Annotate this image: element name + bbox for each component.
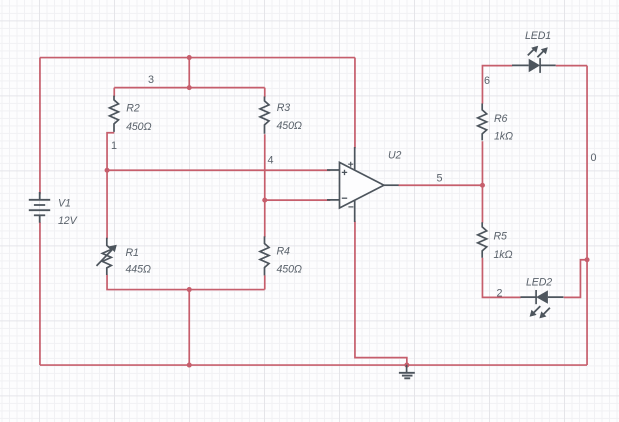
svg-text:U2: U2 <box>388 150 402 162</box>
junction: node 1 <box>105 168 110 173</box>
resistor R3 <box>260 97 269 134</box>
junction: net 5 output <box>480 183 485 188</box>
wire: R6 top up to LED1 row corner <box>482 66 512 104</box>
LED1 <box>512 46 556 73</box>
svg-text:3: 3 <box>148 74 154 86</box>
svg-text:R2: R2 <box>126 103 140 115</box>
LED2 <box>521 290 564 318</box>
wire: V1 minus lead down to bottom rail <box>39 222 41 365</box>
wire: bridge bottom stub down to ground rail <box>188 290 190 366</box>
svg-text:1kΩ: 1kΩ <box>494 130 513 142</box>
svg-text:1kΩ: 1kΩ <box>494 249 513 261</box>
ground symbol <box>399 365 415 379</box>
wire: node 1 down to R1 <box>106 170 108 239</box>
op-amp minus input mark <box>342 197 347 199</box>
op-amp output lead <box>384 184 399 186</box>
LED1 cathode bar <box>539 58 541 73</box>
wire: R2 top lead <box>113 88 115 97</box>
svg-text:5: 5 <box>437 173 443 185</box>
svg-text:450Ω: 450Ω <box>277 264 302 276</box>
LED2 triangle <box>536 290 548 303</box>
junction: bottom rail / bridge stub <box>187 363 192 368</box>
wire: top rail from V1 to op-amp V+ pin <box>40 57 355 59</box>
resistor R5 <box>478 222 487 257</box>
wire: R5 bottom to LED2 row <box>482 258 520 298</box>
junction: node 4 tap <box>262 198 267 203</box>
op-amp V- pin mark <box>348 206 353 208</box>
wire: right rail net 0 down to bottom rail <box>586 66 588 365</box>
wire: op-amp V+ from top rail <box>354 58 356 149</box>
wire: net 4 vertical R3 to R4 <box>264 134 266 237</box>
wire: op-amp output net 5 <box>398 184 482 186</box>
LED1 leads <box>512 64 556 66</box>
svg-text:445Ω: 445Ω <box>126 264 151 276</box>
LED1 triangle <box>529 59 540 73</box>
op-amp U2 <box>327 147 399 222</box>
svg-text:6: 6 <box>484 75 490 87</box>
wire: bridge top horizontal R2 to R3 <box>114 87 265 89</box>
svg-text:450Ω: 450Ω <box>277 120 302 132</box>
wire: R1 bottom to bridge bottom <box>107 275 265 290</box>
resistor R4 <box>260 236 269 275</box>
op-amp power pins <box>354 147 356 222</box>
junction: top rail / net 3 <box>187 55 192 60</box>
wire: R3 top lead <box>264 88 266 98</box>
svg-text:R3: R3 <box>277 102 291 114</box>
op-amp plus input mark <box>342 170 347 175</box>
wire: net 3 stub down to bridge top <box>188 58 190 88</box>
battery V1 <box>29 192 50 223</box>
wire: op-amp V- down and over to ground junction <box>355 221 407 365</box>
svg-text:R5: R5 <box>494 231 508 243</box>
junction: bridge bottom <box>187 287 192 292</box>
svg-text:LED1: LED1 <box>525 30 551 42</box>
svg-text:V1: V1 <box>58 198 71 210</box>
svg-text:12V: 12V <box>58 215 78 227</box>
svg-text:2: 2 <box>497 288 503 300</box>
wire: node 1 to op-amp plus input <box>107 169 330 171</box>
wire: V1 plus lead up to top-left corner <box>39 58 41 195</box>
wire: net 5 junction down to R5 <box>481 185 483 223</box>
wire: node 4 tap to op-amp minus input <box>265 199 331 201</box>
junction: ground tap on bottom rail <box>404 363 409 368</box>
svg-text:4: 4 <box>268 155 274 167</box>
LED2 emission arrow b <box>544 308 550 314</box>
LED2 emission arrow a <box>534 306 540 312</box>
svg-text:R4: R4 <box>277 246 291 258</box>
wire: R4 bottom lead to bridge bottom <box>264 275 266 289</box>
resistor R2 <box>110 96 119 132</box>
arrowhead of rheostat R1 <box>109 245 117 253</box>
op-amp triangle body <box>340 162 384 208</box>
rheostat R1 <box>97 238 113 275</box>
wire: net 5 junction up to R6 <box>481 141 483 185</box>
svg-text:0: 0 <box>591 152 597 164</box>
svg-text:LED2: LED2 <box>526 277 552 289</box>
svg-text:450Ω: 450Ω <box>126 121 151 133</box>
junction: bridge top / net 3 <box>187 85 192 90</box>
svg-text:1: 1 <box>111 140 117 152</box>
op-amp V+ pin mark <box>348 162 353 167</box>
LED1 emission arrow b <box>537 51 543 57</box>
LED2 cathode bar <box>535 290 537 304</box>
wire: R2 bottom jog to node 1 <box>107 133 114 171</box>
resistor R6 <box>478 104 487 141</box>
wire: LED1 cathode to right rail <box>556 65 587 67</box>
svg-text:R1: R1 <box>126 247 139 259</box>
op-amp input leads <box>327 170 340 200</box>
junction: LED2 to right rail <box>585 257 590 262</box>
wire: LED2 to right rail jog <box>564 260 587 298</box>
svg-text:R6: R6 <box>494 113 508 125</box>
wire: bottom ground rail <box>40 364 587 366</box>
LED1 emission arrow a <box>528 49 534 55</box>
LED2 leads <box>521 296 564 298</box>
